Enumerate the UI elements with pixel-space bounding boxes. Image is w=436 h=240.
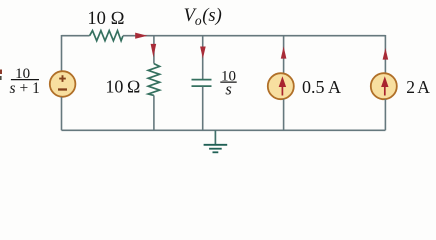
wire right upper segment <box>384 35 386 73</box>
resistor R2 10 ohm vertical zigzag <box>148 64 159 96</box>
ground stub wire <box>214 130 216 144</box>
svg-text:s: s <box>225 80 231 99</box>
voltage source V1 circle <box>50 71 76 97</box>
arrow inside I2 <box>384 85 386 96</box>
current arrow down on C1 branch <box>200 47 206 59</box>
wire bottom segment <box>62 129 386 131</box>
wire branch capacitor C1 upper stub <box>202 36 204 79</box>
wire branch resistor R2 upper stub <box>153 36 155 64</box>
wire top segment left (node A to resistor R1) <box>62 35 90 37</box>
svg-text:2A: 2A <box>406 77 430 97</box>
wire branch current source I1 upper stub <box>283 36 285 74</box>
wire top segment 2 (R1 to node Vo) <box>123 35 386 37</box>
plus sign of V1 <box>59 75 66 82</box>
current arrow up on I1 branch <box>281 46 287 58</box>
wire branch I1 lower segment <box>283 99 285 130</box>
capacitor C1 top plate <box>192 79 212 81</box>
wire left upper segment <box>61 35 63 71</box>
svg-text:0.5 A: 0.5 A <box>302 77 341 97</box>
wire branch C1 lower segment <box>202 87 204 131</box>
scan edge speck dark <box>0 76 2 80</box>
current arrow down on R2 branch <box>151 44 157 57</box>
minus sign of V1 <box>58 88 67 90</box>
svg-text:Vo(s): Vo(s) <box>184 6 222 28</box>
wire right lower segment <box>384 99 386 130</box>
svg-text:s + 1: s + 1 <box>10 80 40 97</box>
scan edge speck red <box>0 70 2 75</box>
wire left lower segment <box>61 97 63 130</box>
ground symbol <box>204 144 228 146</box>
current source I1 0.5A circle <box>268 73 294 99</box>
resistor R1 10 ohm horizontal zigzag <box>90 31 123 41</box>
arrow inside I1 <box>281 85 283 96</box>
current arrow on top wire pointing right <box>135 33 147 39</box>
current arrow up on I2 branch <box>383 48 389 60</box>
svg-text:10 Ω: 10 Ω <box>87 9 124 29</box>
svg-text:10 Ω: 10 Ω <box>105 76 140 96</box>
wire branch R2 lower segment <box>153 95 155 130</box>
capacitor C1 bottom plate <box>192 85 212 87</box>
current source I2 2A circle <box>371 73 397 99</box>
